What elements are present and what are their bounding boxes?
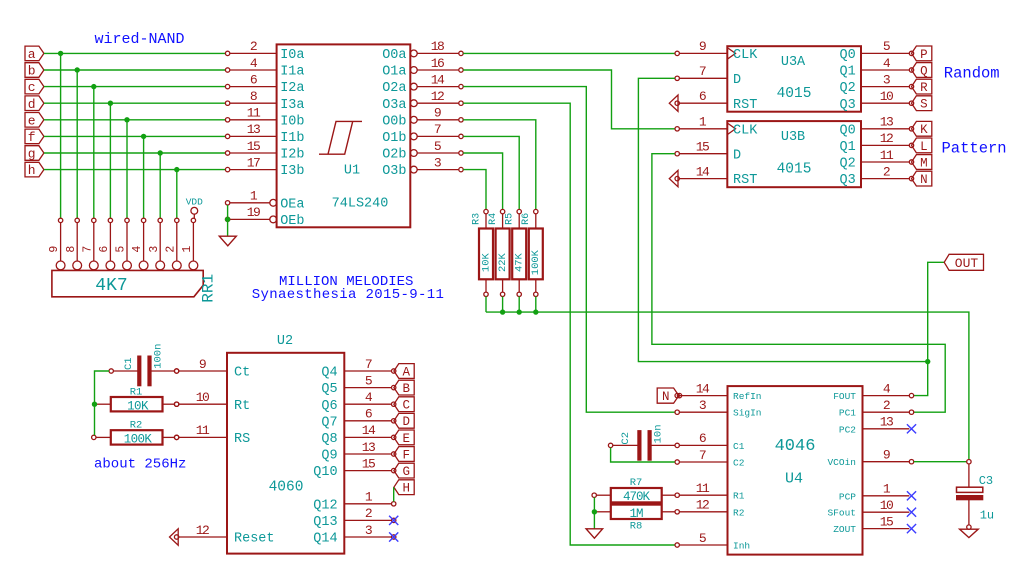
wire net e horizontal: [44, 119, 226, 121]
svg-text:8: 8: [250, 89, 257, 104]
svg-text:7: 7: [699, 448, 706, 463]
svg-text:10: 10: [880, 89, 893, 104]
svg-text:7: 7: [434, 122, 441, 137]
global label D: [394, 413, 414, 429]
svg-text:1M: 1M: [629, 507, 643, 521]
U4 pin 9 VCOin: [827, 448, 913, 469]
U1 pin 9 O0b: [382, 106, 463, 130]
wire net g horizontal: [44, 152, 226, 154]
svg-text:N: N: [920, 173, 928, 187]
svg-text:Q0: Q0: [839, 123, 855, 138]
U2 pin 11 RS: [174, 423, 250, 447]
svg-text:a: a: [28, 47, 36, 62]
svg-text:S: S: [920, 98, 928, 112]
svg-text:d: d: [28, 97, 36, 112]
svg-text:Q8: Q8: [321, 432, 337, 447]
U1 pin 16 O1a: [382, 56, 463, 80]
svg-text:c: c: [28, 80, 36, 95]
svg-text:9: 9: [883, 448, 890, 463]
resistor R4 22K: [488, 209, 510, 296]
junction R4 common: [500, 309, 505, 314]
capacitor C2 10n: [608, 424, 674, 460]
svg-text:VCOin: VCOin: [827, 457, 856, 468]
svg-text:7: 7: [81, 246, 94, 253]
svg-text:I1a: I1a: [280, 65, 304, 80]
global label H: [394, 480, 414, 496]
power symbol VDD: [186, 197, 203, 219]
wire C1 R1 R2 left common: [95, 371, 110, 435]
svg-text:C: C: [403, 399, 411, 413]
svg-text:I3b: I3b: [280, 164, 304, 179]
global label L: [912, 138, 932, 154]
svg-text:U4: U4: [785, 470, 803, 487]
svg-text:Synaesthesia 2015-9-11: Synaesthesia 2015-9-11: [252, 287, 445, 303]
svg-text:R7: R7: [630, 477, 643, 489]
svg-text:D: D: [733, 73, 741, 88]
svg-text:4015: 4015: [777, 162, 812, 178]
svg-text:A: A: [403, 365, 411, 379]
svg-text:13: 13: [362, 440, 375, 455]
svg-text:10n: 10n: [653, 424, 665, 443]
svg-text:7: 7: [699, 64, 706, 79]
svg-text:R3: R3: [471, 213, 482, 225]
wire O1b to R5: [463, 136, 519, 209]
svg-text:5: 5: [365, 373, 372, 388]
svg-text:13: 13: [247, 122, 260, 137]
global label b: [25, 63, 44, 79]
junction net b: [75, 67, 80, 72]
svg-text:4060: 4060: [269, 480, 304, 496]
svg-text:14: 14: [362, 423, 376, 438]
U3A pin 9 CLK: [675, 39, 758, 63]
global label R: [912, 79, 932, 95]
global label h: [25, 162, 44, 178]
svg-text:4015: 4015: [777, 86, 812, 102]
U3B pin 14 RST: [669, 164, 757, 188]
svg-text:11: 11: [696, 481, 710, 496]
svg-text:4046: 4046: [775, 437, 816, 456]
U2 pin 1 Q12: [313, 490, 396, 514]
svg-text:Q: Q: [920, 64, 928, 78]
global label f: [25, 129, 44, 145]
svg-text:5: 5: [883, 39, 890, 54]
svg-text:9: 9: [699, 39, 706, 54]
svg-text:9: 9: [434, 106, 441, 121]
svg-text:2: 2: [164, 246, 177, 253]
svg-text:wired-NAND: wired-NAND: [95, 31, 185, 48]
svg-text:9: 9: [48, 246, 61, 253]
global label F: [394, 447, 414, 463]
reference U4: [785, 470, 803, 487]
svg-text:1: 1: [181, 246, 194, 253]
junction R5 common: [517, 309, 522, 314]
global label d: [25, 96, 44, 112]
global label K: [912, 121, 932, 137]
wire R5 bottom: [518, 297, 520, 313]
junction net d: [108, 101, 113, 106]
wire C2 to pin C2: [611, 448, 675, 462]
svg-text:Ct: Ct: [234, 366, 250, 381]
svg-text:Random: Random: [944, 64, 1000, 82]
resistor R6 100K: [521, 209, 543, 296]
U2 pin 5 Q5: [321, 373, 396, 397]
global label C: [394, 397, 414, 413]
U1 pin 7 O1b: [382, 122, 463, 146]
global label a: [25, 46, 44, 62]
value 74LS240: [332, 197, 389, 212]
wire resistor commons to VCOin net: [486, 312, 969, 459]
global label A: [394, 364, 414, 380]
wire VCOin to C3: [914, 461, 967, 463]
global label E: [394, 430, 414, 446]
wire net e vertical to RR1: [126, 120, 128, 218]
svg-text:RefIn: RefIn: [733, 391, 762, 402]
junction OUT feedback: [925, 359, 930, 364]
global label Q: [912, 63, 932, 79]
svg-text:16: 16: [431, 56, 444, 71]
value 4046: [775, 437, 816, 456]
svg-text:2: 2: [883, 398, 890, 413]
svg-text:18: 18: [431, 39, 444, 54]
svg-text:PCP: PCP: [839, 491, 856, 502]
U3B pin 12 Q1: [839, 131, 913, 155]
svg-text:Rt: Rt: [234, 399, 250, 414]
U2 pin 3 Q14: [313, 523, 396, 547]
svg-text:Q14: Q14: [313, 532, 337, 547]
svg-text:74LS240: 74LS240: [332, 197, 389, 212]
svg-text:C2: C2: [620, 432, 632, 445]
svg-text:12: 12: [431, 89, 444, 104]
svg-text:RR1: RR1: [200, 274, 218, 303]
U4 pin 13 PC2: [839, 415, 916, 436]
svg-text:P: P: [920, 48, 928, 62]
U1 pin 2 I0a: [225, 39, 304, 63]
wire net h horizontal: [44, 169, 226, 171]
svg-text:9: 9: [199, 357, 206, 372]
svg-text:4K7: 4K7: [95, 276, 127, 296]
svg-text:100n: 100n: [152, 344, 164, 369]
svg-text:O3b: O3b: [382, 164, 406, 179]
U4 pin 12 R2: [675, 498, 745, 519]
wire net h vertical to RR1: [176, 170, 178, 219]
svg-text:I2a: I2a: [280, 81, 304, 96]
svg-text:6: 6: [250, 72, 257, 87]
svg-text:2: 2: [250, 39, 257, 54]
svg-text:8: 8: [65, 246, 78, 253]
svg-text:SFout: SFout: [827, 508, 856, 519]
global label M: [912, 155, 932, 171]
U4 pin 5 Inh: [675, 531, 750, 552]
svg-text:M: M: [920, 156, 928, 170]
svg-text:6: 6: [98, 246, 111, 253]
svg-text:C1: C1: [123, 357, 135, 370]
U4 pin 11 R1: [675, 481, 745, 502]
U2 pin 4 Q6: [321, 390, 396, 414]
U1 pin 18 O0a: [382, 39, 463, 63]
U4 pin 1 PCP: [839, 482, 916, 503]
wire R7 R8 to ground: [593, 497, 595, 528]
junction R1 left: [92, 402, 97, 407]
resistor R1 10K: [97, 386, 179, 413]
svg-text:PC2: PC2: [839, 424, 856, 435]
svg-text:Q10: Q10: [313, 465, 337, 480]
wire R6 bottom: [535, 297, 537, 313]
svg-text:g: g: [28, 147, 36, 162]
junction net c: [91, 84, 96, 89]
svg-text:Q2: Q2: [839, 81, 855, 96]
wire net g vertical to RR1: [159, 153, 161, 218]
global label G: [394, 463, 414, 479]
U4 pin 6 C1: [675, 431, 745, 452]
ground below R8: [586, 529, 603, 538]
svg-text:h: h: [28, 163, 36, 178]
U4 pin 3 SigIn: [675, 398, 762, 419]
svg-text:15: 15: [247, 139, 260, 154]
svg-text:Q5: Q5: [321, 382, 337, 397]
capacitor C3 1u: [957, 460, 995, 530]
wire net f horizontal: [44, 135, 226, 137]
svg-text:FOUT: FOUT: [833, 391, 856, 402]
U3B pin 13 Q0: [839, 115, 913, 139]
U1 pin 15 I2b: [225, 139, 304, 163]
text MILLION MELODIES title: [279, 274, 413, 290]
U2 pin 10 Rt: [174, 390, 250, 414]
U3B pin 15 D: [675, 140, 741, 164]
IC U3A 4015 body: [727, 46, 861, 112]
svg-text:C1: C1: [733, 441, 745, 452]
svg-text:about 256Hz: about 256Hz: [94, 457, 186, 473]
reference U2: [277, 334, 293, 349]
svg-text:4: 4: [131, 246, 144, 253]
svg-text:6: 6: [699, 89, 706, 104]
value 4060: [269, 480, 304, 496]
svg-text:19: 19: [247, 205, 260, 220]
svg-text:10K: 10K: [480, 252, 492, 272]
svg-text:C2: C2: [733, 458, 745, 469]
U4 pin 15 ZOUT: [833, 514, 916, 535]
svg-text:11: 11: [247, 106, 261, 121]
svg-text:U3B: U3B: [781, 130, 805, 145]
text Synaesthesia date: [252, 287, 445, 303]
svg-text:b: b: [28, 64, 36, 79]
svg-text:U3A: U3A: [781, 55, 806, 70]
svg-text:O1b: O1b: [382, 131, 406, 146]
wire O2a to U4 SigIn: [463, 87, 675, 413]
svg-text:Q0: Q0: [839, 48, 855, 63]
svg-text:C3: C3: [979, 474, 993, 488]
svg-text:PC1: PC1: [839, 408, 856, 419]
svg-text:I1b: I1b: [280, 131, 304, 146]
wire O0b to R6: [463, 120, 536, 210]
svg-text:O2a: O2a: [382, 81, 406, 96]
svg-text:Q12: Q12: [313, 498, 337, 513]
svg-text:Q1: Q1: [839, 140, 855, 155]
wire O0a to U3A CLK: [463, 52, 675, 54]
U3B pin 2 Q3: [839, 164, 913, 188]
svg-text:6: 6: [365, 407, 372, 422]
svg-text:10: 10: [880, 498, 893, 513]
svg-text:1u: 1u: [980, 508, 994, 522]
global label OUT: [944, 254, 983, 270]
reference U1: [344, 164, 360, 179]
wire O3a to U4 Inh: [463, 103, 675, 545]
svg-text:B: B: [403, 382, 411, 396]
wire net f vertical to RR1: [143, 136, 145, 218]
IC U3B 4015 body: [727, 121, 861, 187]
svg-text:RST: RST: [733, 173, 757, 188]
U4 pin 14 RefIn: [675, 381, 762, 402]
U1 pin 4 I1a: [225, 56, 304, 80]
svg-text:Inh: Inh: [733, 541, 750, 552]
resistor R7 470K: [592, 477, 675, 504]
junction net a: [58, 51, 63, 56]
svg-text:H: H: [403, 482, 411, 496]
U1 pin 8 I3a: [225, 89, 304, 113]
svg-text:R6: R6: [521, 213, 532, 225]
U1 pin 12 O3a: [382, 89, 463, 113]
ground below C3: [960, 529, 979, 537]
svg-text:2: 2: [883, 164, 890, 179]
wire O3b to R3: [463, 170, 486, 210]
svg-text:R2: R2: [130, 420, 143, 432]
svg-text:Reset: Reset: [234, 532, 275, 547]
svg-text:47K: 47K: [514, 252, 526, 272]
junction OEb: [225, 217, 230, 222]
IC U2 4060 body: [227, 353, 344, 554]
svg-text:F: F: [403, 448, 411, 462]
junction net g: [158, 150, 163, 155]
global label B: [394, 380, 414, 396]
svg-text:15: 15: [362, 456, 375, 471]
svg-text:Q3: Q3: [839, 173, 855, 188]
U1 pin 3 O3b: [382, 155, 463, 179]
global label S: [912, 96, 932, 112]
U2 pin 9 Ct: [174, 357, 250, 381]
junction net e: [124, 117, 129, 122]
svg-text:Q13: Q13: [313, 515, 337, 530]
svg-text:17: 17: [247, 155, 260, 170]
U3A pin 4 Q1: [839, 56, 913, 80]
global label P: [912, 46, 932, 62]
U1 pin 17 I3b: [225, 155, 304, 179]
value 4K7 of RR1: [95, 276, 127, 296]
svg-text:Q3: Q3: [839, 98, 855, 113]
U1 pin 14 O2a: [382, 72, 463, 96]
wire Q12 to label H: [393, 487, 395, 501]
svg-text:5: 5: [699, 531, 706, 546]
global label e: [25, 113, 44, 129]
wire net d horizontal: [44, 102, 226, 104]
svg-text:I0b: I0b: [280, 114, 304, 129]
svg-text:13: 13: [880, 415, 893, 430]
junction net f: [141, 134, 146, 139]
svg-text:3: 3: [365, 523, 372, 538]
svg-text:15: 15: [880, 514, 893, 529]
text about 256Hz: [94, 457, 186, 473]
text wired-NAND: [95, 31, 185, 48]
U1 pin 1 OEa: [225, 189, 304, 213]
svg-text:15: 15: [696, 140, 709, 155]
text Random: [944, 64, 1000, 82]
svg-text:I0a: I0a: [280, 48, 304, 63]
svg-text:3: 3: [148, 246, 161, 253]
U1 pin 11 I0b: [225, 106, 304, 130]
svg-text:13: 13: [880, 115, 893, 130]
svg-text:100K: 100K: [530, 249, 542, 275]
svg-text:R8: R8: [630, 520, 643, 532]
svg-text:OEa: OEa: [280, 197, 304, 212]
svg-text:7: 7: [365, 357, 372, 372]
svg-text:ZOUT: ZOUT: [833, 524, 856, 535]
svg-text:CLK: CLK: [733, 123, 758, 138]
svg-text:E: E: [403, 432, 411, 446]
U3A pin 10 Q3: [839, 89, 913, 113]
svg-text:O2b: O2b: [382, 148, 406, 163]
resistor R3 10K: [471, 209, 493, 296]
value 4015 (U3B): [777, 162, 812, 178]
svg-text:O0a: O0a: [382, 48, 406, 63]
svg-text:Q6: Q6: [321, 399, 337, 414]
U3A pin 5 Q0: [839, 39, 913, 63]
svg-text:5: 5: [434, 139, 441, 154]
svg-text:U2: U2: [277, 334, 293, 349]
svg-text:R2: R2: [733, 507, 745, 518]
resistor R5 47K: [505, 209, 527, 296]
svg-text:D: D: [733, 148, 741, 163]
global label g: [25, 146, 44, 162]
svg-text:Q4: Q4: [321, 366, 337, 381]
svg-text:Q7: Q7: [321, 415, 337, 430]
wire net d vertical to RR1: [109, 103, 111, 218]
svg-text:K: K: [920, 123, 928, 137]
U2 pin 13 Q9: [321, 440, 396, 464]
svg-text:R1: R1: [130, 386, 143, 398]
svg-text:VDD: VDD: [186, 197, 203, 208]
global label c: [25, 79, 44, 95]
no-connect Q14: [389, 532, 398, 541]
wire net b horizontal: [44, 69, 226, 71]
svg-text:3: 3: [699, 398, 706, 413]
wire U3A D feedback: [638, 78, 927, 361]
junction R8 left: [592, 509, 597, 514]
svg-text:O1a: O1a: [382, 65, 406, 80]
svg-text:SigIn: SigIn: [733, 408, 762, 419]
U2 pin 6 Q7: [321, 407, 396, 431]
U3B pin 11 Q2: [839, 148, 913, 172]
svg-text:Q9: Q9: [321, 449, 337, 464]
svg-text:Q2: Q2: [839, 157, 855, 172]
svg-text:Pattern: Pattern: [942, 140, 1007, 158]
ground below U1 OE pins: [219, 236, 236, 246]
U2 pin 7 Q4: [321, 357, 396, 381]
junction R6 common: [533, 309, 538, 314]
svg-text:O3a: O3a: [382, 98, 406, 113]
U1 pin 6 I2a: [225, 72, 304, 96]
value 4015 (U3A): [777, 86, 812, 102]
svg-text:22K: 22K: [497, 252, 509, 272]
svg-text:3: 3: [883, 72, 890, 87]
svg-text:11: 11: [196, 423, 210, 438]
svg-text:3: 3: [434, 155, 441, 170]
svg-text:L: L: [920, 140, 928, 154]
svg-text:U1: U1: [344, 164, 360, 179]
U2 pin 14 Q8: [321, 423, 396, 447]
svg-text:14: 14: [431, 72, 445, 87]
svg-text:14: 14: [696, 381, 710, 396]
U2 pin 15 Q10: [313, 456, 396, 480]
U2 pin 2 Q13: [313, 506, 396, 530]
svg-text:470K: 470K: [623, 490, 651, 504]
